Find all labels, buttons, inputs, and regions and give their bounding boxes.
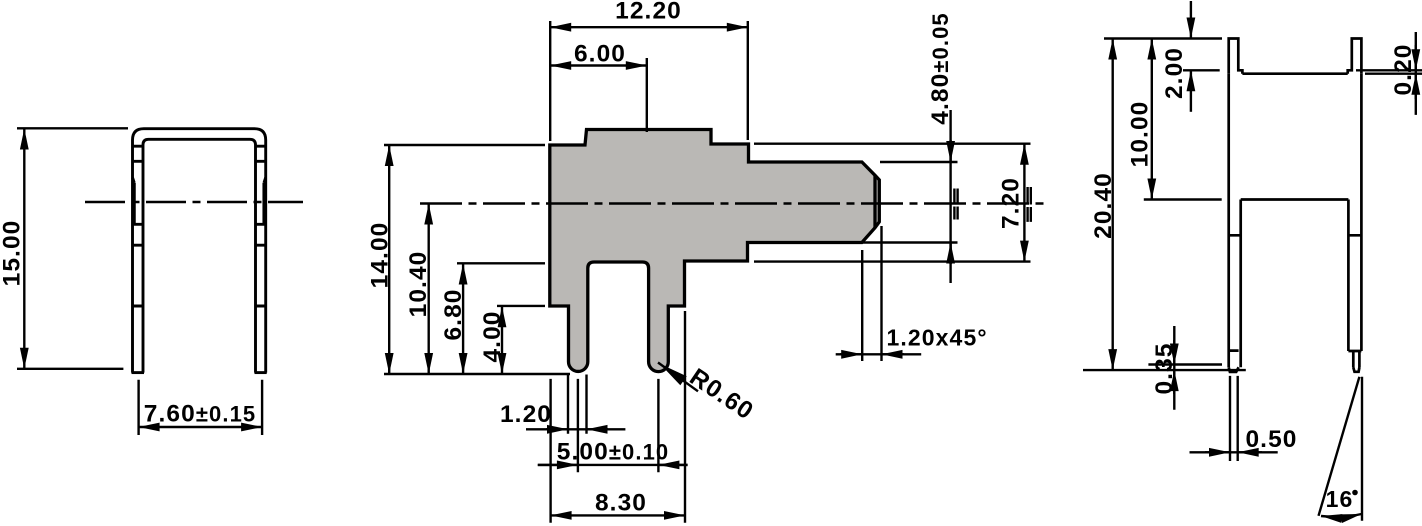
- svg-text:12.20: 12.20: [615, 0, 682, 25]
- dimension 4.00 line: [501, 306, 503, 374]
- dimension 0.20 arrows: [1415, 32, 1417, 115]
- left leg bottom: [132, 371, 145, 374]
- left leg serration ticks: [133, 146, 144, 306]
- dimension 1.20 arrows: [526, 428, 625, 430]
- svg-text:R0.60: R0.60: [685, 364, 759, 426]
- dimension 6.80 extension line: [457, 262, 545, 264]
- angle 16 reference vertical: [1361, 377, 1363, 521]
- centerline: [420, 202, 1046, 204]
- svg-text:0.35: 0.35: [1151, 342, 1178, 394]
- dimension 4.80 arrows: [949, 110, 951, 283]
- svg-text:0.20: 0.20: [1390, 43, 1417, 95]
- svg-text:16: 16: [1326, 486, 1354, 512]
- dimension 7.20 extension lines: [754, 144, 1031, 262]
- right rail outer edge: [1360, 74, 1363, 351]
- dimension 6.80 line: [462, 264, 464, 375]
- dimension 10.40 line: [428, 204, 430, 375]
- svg-text:7.20: 7.20: [998, 177, 1025, 229]
- svg-text:5.00±0.10: 5.00±0.10: [557, 439, 670, 466]
- dimension 6.00 extension line: [646, 58, 648, 132]
- svg-text:1.20: 1.20: [500, 401, 552, 428]
- svg-text:4.00: 4.00: [479, 310, 506, 362]
- dimension 10.00 line: [1151, 39, 1153, 200]
- right rail inner edge: [1347, 200, 1350, 352]
- right bent-tab stub: [1348, 39, 1362, 74]
- svg-text:4.80±0.05: 4.80±0.05: [927, 12, 954, 125]
- dimension 14.00 extension top: [384, 144, 545, 146]
- clip outer outline: [133, 129, 266, 373]
- dimension 4.80 extension lines: [863, 162, 958, 243]
- dimension 7.20 line: [1023, 144, 1025, 262]
- angle 16 arc: [1321, 514, 1362, 517]
- dimension 12.20 extension lines: [550, 21, 748, 141]
- blade tip chamfer inner edge: [873, 175, 876, 227]
- angle 16 slanted leg line: [1319, 377, 1360, 516]
- dimension 2.00 arrows: [1190, 1, 1192, 39]
- dimension 7.60 extension lines: [139, 380, 263, 435]
- dimension 5.00 extension lines: [578, 379, 659, 472]
- clip inner outline: [143, 139, 256, 372]
- symmetry marks on 7.20 line: [1028, 187, 1031, 222]
- dimension 15.00 line: [23, 129, 25, 369]
- bottom baseline for vertical dims: [384, 373, 570, 375]
- blade/leg boundary crossline: [1241, 198, 1349, 201]
- dimension 8.30 extension lines: [551, 311, 685, 523]
- left rail inner edge: [1239, 200, 1242, 368]
- dimension 0.35 top extension: [1148, 363, 1222, 365]
- svg-text:10.40: 10.40: [405, 251, 432, 318]
- svg-text:1.20x45°: 1.20x45°: [887, 325, 988, 351]
- svg-text:6.80: 6.80: [440, 288, 467, 340]
- dimension 15.00 extension top: [17, 127, 128, 129]
- right leg serration ticks: [256, 146, 266, 306]
- svg-text:15.00: 15.00: [0, 220, 26, 287]
- dimension 0.50 arrows: [1190, 451, 1278, 453]
- svg-text:0.50: 0.50: [1245, 426, 1297, 453]
- dimension 20.40 line: [1111, 39, 1113, 371]
- dimension 4.00 extension line: [497, 305, 545, 307]
- terminal profile (gray filled): [550, 130, 880, 372]
- dimension 1.20x45 arrows: [836, 353, 922, 355]
- svg-text:10.00: 10.00: [1127, 101, 1154, 168]
- svg-text:6.00: 6.00: [574, 41, 626, 68]
- svg-text:7.60±0.15: 7.60±0.15: [144, 401, 257, 428]
- dimension 5.00 line: [538, 464, 688, 466]
- svg-text:14.00: 14.00: [367, 222, 394, 289]
- degree dot: [1352, 490, 1358, 496]
- svg-text:20.40: 20.40: [1090, 172, 1117, 239]
- dimension 2.00 bottom extension: [1183, 69, 1220, 71]
- dimension 6.00 line: [550, 64, 647, 66]
- dimension 8.30 line: [551, 514, 685, 516]
- left leg taper jog: [133, 178, 135, 225]
- dimension 0.35 arrows: [1173, 326, 1175, 410]
- top crossbar: [1242, 72, 1347, 75]
- dimension 0.20 extension lines: [1356, 70, 1422, 73]
- dimension 14.00 line: [388, 145, 390, 374]
- dimension 15.00 extension bottom: [17, 368, 123, 370]
- left rail outer edge: [1227, 74, 1230, 368]
- right leg taper jog: [264, 178, 266, 225]
- dimension 1.20 extension lines: [568, 375, 587, 434]
- dimension 12.20 line: [550, 26, 748, 28]
- dimension 20.40 bottom extension: [1083, 369, 1246, 371]
- left rail tip: [1229, 351, 1239, 372]
- dimension 20.40 top extension: [1104, 37, 1222, 39]
- dimension 10.00 bottom extension: [1144, 198, 1222, 200]
- svg-text:2.00: 2.00: [1161, 47, 1188, 99]
- dimension 0.50 extension lines: [1230, 376, 1238, 461]
- leader R0.60: [658, 363, 698, 392]
- svg-text:8.30: 8.30: [595, 490, 647, 517]
- left bent-tab stub: [1229, 39, 1243, 74]
- rail serration ticks: [1229, 234, 1362, 237]
- right rail tip: [1348, 351, 1361, 372]
- right leg bottom: [255, 371, 267, 374]
- dimension 1.20x45 extension lines: [862, 226, 881, 361]
- centerline: [85, 201, 303, 203]
- dimension 7.60 line: [139, 426, 263, 428]
- symmetry marks on 4.80 line: [954, 189, 957, 220]
